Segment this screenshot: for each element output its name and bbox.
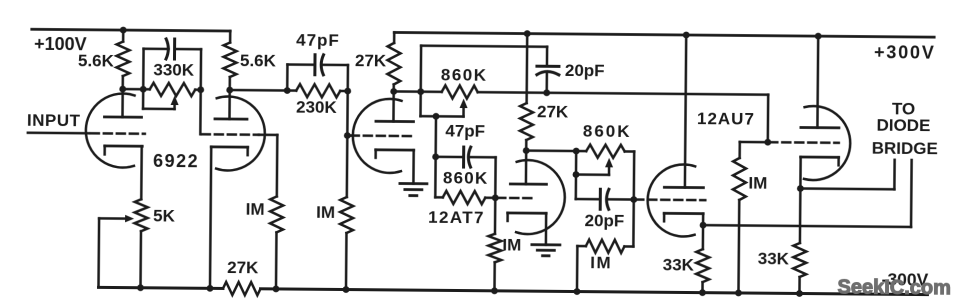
wire wiper node down to 47pF#2 box [434,116,437,156]
svg-text:12AU7: 12AU7 [697,109,755,129]
tube V3B cathode [801,157,839,165]
wire V2A plate to 860K#1 [394,90,421,93]
svg-text:230K: 230K [296,98,338,117]
junction dot: V3A cathode node [700,222,707,229]
tube V3B plate [801,36,840,128]
wire INPUT line [28,131,89,134]
svg-text:6922: 6922 [153,151,199,171]
svg-text:27K: 27K [227,258,259,277]
junction dot: 47pF#2 box top-left [432,153,439,160]
resistor 27K (plate load V2A) [387,32,401,91]
wire 47pF box right edge [346,65,349,91]
svg-text:47pF: 47pF [296,31,340,50]
tube V3A cathode [664,213,703,221]
potentiometer 860K #1 [421,85,547,99]
junction dot: 860K#1 left [417,88,424,95]
potentiometer 5K (cathode V1A) [134,146,148,288]
tube V3A grid (dashed) [635,198,705,201]
junction dot: V1B cathode / rail [207,285,214,292]
wire V1B cathode to bottom rail [210,147,211,288]
junction dot: 860K#3 left [573,148,580,155]
wire 330K wiper [143,89,175,109]
junction dot: 33K#2 / rail [796,290,803,297]
svg-text:27K: 27K [537,102,569,121]
tube V1A grid (dashed) [91,132,145,135]
resistor 1M (V2B grid leak) [488,198,502,291]
resistor 27K (bottom rail series) [223,282,261,295]
resistor 230K [287,84,348,98]
capacitor 20pF #1 bottom plate [537,71,559,74]
tube V2B cathode [508,213,547,221]
wire V1A plate node to 330K box [123,88,143,91]
label 5.6K R1 [78,51,115,70]
wire 860K#3 wiper run [576,173,609,176]
label INPUT [27,111,81,130]
capacitor across 330K (right wire) [175,48,201,51]
capacitor 20pF #1 top plate [537,65,559,68]
label 20pF #1 [565,61,605,80]
tube V2A plate [376,91,414,121]
junction dot: 1M#2 / rail [343,286,350,293]
junction dot: 1M#3 / rail [491,287,498,294]
junction dot: 230K left / 47pF left [284,87,291,94]
wire 330K box left edge (up to cap) [142,49,145,89]
wire +300V rail [394,32,934,37]
resistor 1M (V1B grid leak) [257,135,283,289]
wire output lower (to diode bridge) [703,158,912,227]
arrow 860K#1 wiper [460,99,468,117]
capacitor 20pF #2 (right wire) [609,198,634,201]
wire 47pF box left edge [286,65,289,91]
tube V2B 12AT7 envelope [516,160,565,234]
junction dot: V2B plate node [523,147,530,154]
arrow 330K wiper [171,95,179,109]
wire -300V bottom rail (left of 27K) [98,287,222,288]
label 47pF #2 [445,121,485,140]
label 1M #3 [502,235,521,254]
tube V2A grid (dashed) [347,134,414,137]
label 860K #1 [441,65,488,84]
label 47pF #1 [296,31,340,50]
wire -300V bottom rail (right of 27K) [260,289,927,295]
wire V3A cathode lead [702,214,705,225]
arrow 860K#3 wiper [605,158,613,175]
label 20pF #2 [585,211,625,230]
wire V1B plate to 230K [230,89,287,92]
junction dot: V2A grid node [344,132,351,139]
junction dot: R1 bottom / V1A plate node [119,86,126,93]
tube V1A cathode [105,146,143,155]
wire +100V rail [32,29,230,31]
tube V3A plate [664,35,704,188]
junction dot: 20pF#1 bottom node [543,89,550,96]
label BRIDGE [872,139,938,159]
capacitor 47pF #2 (right wire) [471,156,496,159]
wire 20pF#1 bottom lead [545,72,548,92]
junction dot: 330K box left [140,86,147,93]
wire 47pF#2 box left edge [434,157,437,197]
junction dot: V3B grid node [764,139,771,146]
junction dot: +300V rail / V3B plate [815,33,822,40]
svg-text:860K: 860K [441,65,488,84]
junction dot: +300V rail / 27K top [524,30,531,37]
svg-text:20pF: 20pF [565,61,605,80]
watermark SeekIC.com [837,276,951,299]
wire V2A cathode to ground [412,150,415,183]
wire 860K#3 right edge down [633,152,636,200]
capacitor 47pF #1 (right wire) [323,64,347,67]
label +300V [874,42,936,63]
wire left column to 20pF#2 [576,151,601,199]
junction dot: 5K bottom / rail [137,284,144,291]
junction dot: wiper node [433,113,440,120]
svg-text:DIODE: DIODE [876,116,930,135]
label 1M #1 [246,200,265,219]
svg-text:IM: IM [502,235,521,254]
capacitor 47pF #2 [464,147,471,167]
junction dot: +100V rail / R1 top [120,27,127,34]
wire output upper (to diode bridge) [800,159,894,189]
capacitor 20pF #2 [600,189,609,209]
tube V2A 12AT7 envelope [353,99,402,173]
capacitor 47pF #1 [315,55,324,75]
junction dot: V3B cathode node [797,185,804,192]
label DIODE [876,116,930,135]
junction dot: 33K#1 / rail [699,289,706,296]
wire L from 860K#1 left to wiper node [421,92,437,117]
tube V2B plate [510,150,546,184]
junction dot: 1M#4 / rail [735,290,742,297]
svg-text:IM: IM [748,174,767,193]
wire 47pF#2 box right edge [494,157,497,197]
label 12AU7 [697,109,755,129]
arrow 5K wiper [99,215,134,223]
svg-text:BRIDGE: BRIDGE [872,139,938,159]
capacitor across 330K [166,39,175,59]
label 1M #2 [316,203,335,222]
resistor 1M (V3A grid to -300V) [577,240,633,253]
wire 860K#1 right run to V3B grid corner [546,93,768,142]
resistor 27K (plate load V2B) [520,34,534,151]
wire 5K wiper to bottom rail [97,218,100,287]
capacitor 47pF #1 (left wire) [287,63,314,66]
tube V2A cathode [376,150,414,158]
svg-text:INPUT: INPUT [27,111,81,130]
label 860K #3 [583,122,632,141]
resistor 1M (V3B grid leak) [732,142,768,293]
junction dot: 1M#5 / rail [574,288,581,295]
tube V3B 12AU7 envelope [804,106,851,180]
capacitor across 330K (left wire) [144,48,169,51]
junction dot: V3A grid node [630,196,637,203]
junction dot: 330K right / V1B grid [197,86,204,93]
wire 1M#5 left lead to rail [576,246,579,291]
svg-text:860K: 860K [443,168,489,187]
label 230K [296,98,338,117]
resistor 33K (V3A cathode) [696,225,710,293]
svg-text:IM: IM [246,200,265,219]
label 27K V2A [355,51,387,70]
label 5K [153,206,176,225]
label 27K bottom [227,258,259,277]
junction dot: 860K#3 wiper node [573,171,580,178]
svg-text:47pF: 47pF [445,121,485,140]
label 330K [153,60,195,79]
wire V3A grid node down to 1M [632,200,635,247]
junction dot: R2 bottom / V1B plate node [226,87,233,94]
resistor R1 5.6K (plate load V1A) [116,30,130,89]
label 5.6K R2 [240,51,277,70]
junction dot: +300V rail / V3A plate [683,32,690,39]
ground (V2B cathode) [532,245,560,256]
tube V1A plate [104,89,141,117]
tube V1A 6922 envelope [86,93,135,167]
resistor 860K #2 [435,191,495,205]
svg-text:860K: 860K [583,122,632,141]
label 1M #5 [590,253,612,272]
junction dot: 230K right [344,88,351,95]
tube V1B 6922 envelope [216,96,265,170]
tube V2B grid (dashed) [497,197,533,200]
label 27K V2B [537,102,569,121]
svg-text:IM: IM [316,203,335,222]
svg-text:5K: 5K [153,206,176,225]
label 1M #4 [748,174,767,193]
tube V3A 12AU7 envelope [647,164,695,236]
wire 860K#1 wiper run [436,115,463,118]
resistor R2 5.6K (plate load V1B) [223,31,237,90]
svg-text:IM: IM [590,253,612,272]
svg-text:SeekIC.com: SeekIC.com [837,276,951,299]
svg-text:12AT7: 12AT7 [428,208,485,227]
tube V1B grid (dashed) [202,133,259,136]
svg-text:5.6K: 5.6K [240,51,277,70]
tube V1B cathode [211,147,248,155]
svg-text:330K: 330K [153,60,195,79]
label 12AT7 [428,208,485,227]
label +100V [34,34,87,54]
svg-text:27K: 27K [355,51,387,70]
wire 330K right to V1B grid [199,90,202,134]
svg-text:5.6K: 5.6K [78,51,115,70]
ground (V2A cathode) [400,183,427,195]
wire 230K right down to V2A grid [346,91,349,135]
wire V2B plate to 860K#3 [526,149,576,152]
svg-text:+300V: +300V [874,42,936,63]
junction dot: V2B grid node [492,194,499,201]
tube V1B plate [215,90,247,119]
svg-text:20pF: 20pF [585,211,625,230]
resistor 1M (V2A grid leak) [339,135,353,289]
svg-text:33K: 33K [758,249,790,268]
wire 20pF#1 top route (box) [421,46,547,93]
svg-text:33K: 33K [663,255,695,274]
junction dot: 1M#1 / rail [273,285,280,292]
tube V3B grid (dashed) [769,141,838,144]
junction dot: V2A plate node [390,88,397,95]
wire V2B cathode to ground [545,213,548,244]
wire 330K box right edge [199,49,202,89]
label -300V [882,269,929,289]
capacitor 47pF #2 (left wire) [436,156,464,159]
label 33K #2 [758,249,790,268]
label TO [892,99,915,118]
resistor 33K (V3B cathode) [793,188,807,293]
label 6922 [153,151,199,171]
potentiometer 330K [143,83,201,97]
label 33K #1 [663,255,695,274]
potentiometer 860K #3 [576,145,634,159]
wire V3B cathode lead [799,157,802,188]
label 860K #2 [443,168,489,187]
